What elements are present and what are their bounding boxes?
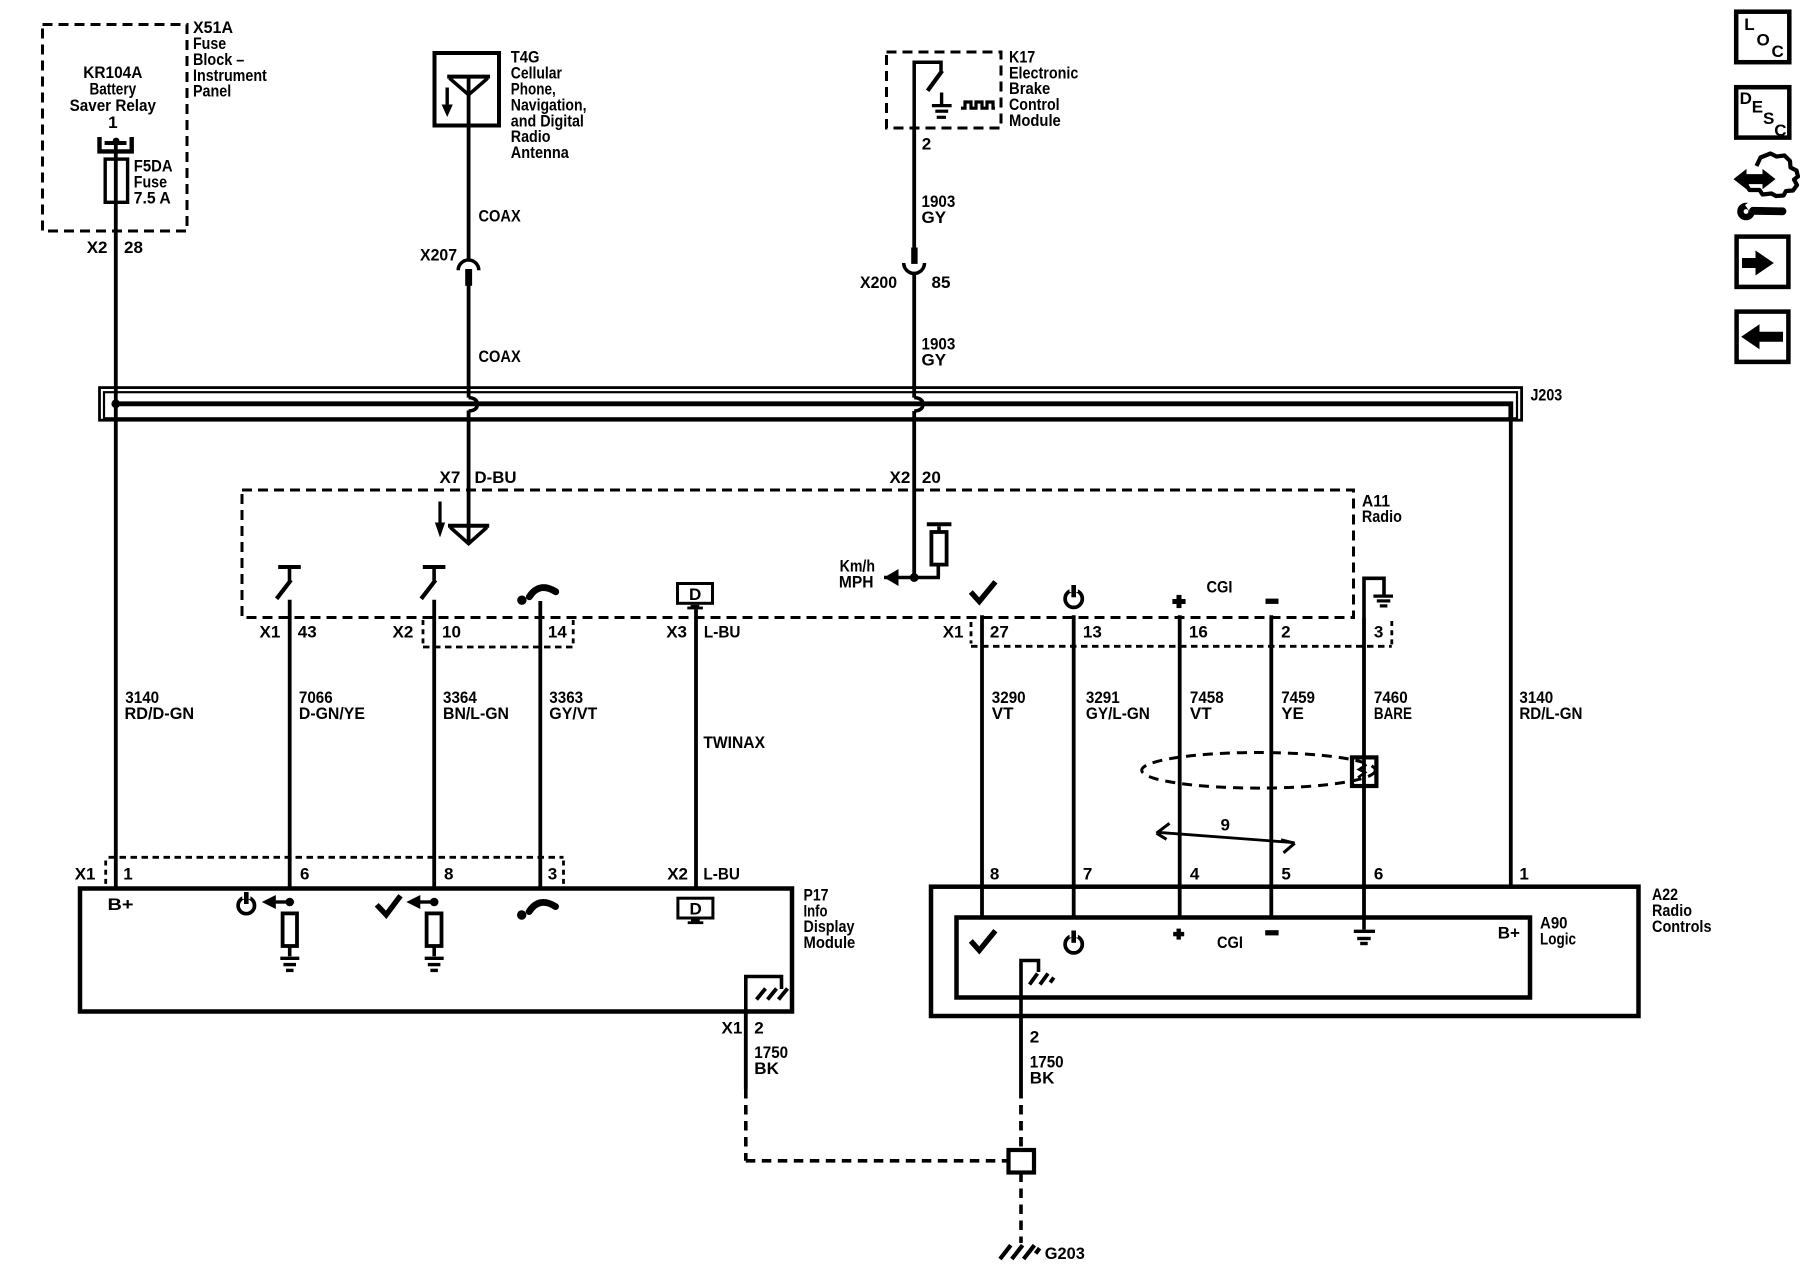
wire 3291 GY/L-GN — [1072, 615, 1076, 917]
module A90 Logic box — [957, 918, 1531, 998]
svg-text:Logic: Logic — [1540, 929, 1576, 948]
svg-text:COAX: COAX — [479, 207, 522, 226]
svg-text:D: D — [1740, 89, 1752, 108]
svg-text:C: C — [1774, 121, 1786, 140]
svg-text:43: 43 — [298, 623, 317, 642]
power icon in A90 — [1065, 931, 1082, 953]
wire 3140 RD/D-GN from fuse to P17 B+ — [114, 143, 118, 889]
pin labels A22 top row — [990, 865, 1529, 884]
wire 3363 GY/VT — [538, 601, 542, 889]
label 1903 GY lower — [922, 335, 956, 370]
svg-text:L-BU: L-BU — [703, 864, 740, 883]
arrow to power icon P17 — [262, 895, 290, 909]
module A22 Radio Controls box — [931, 887, 1639, 1016]
svg-text:16: 16 — [1189, 623, 1208, 642]
icon swap-wrench — [1734, 154, 1799, 218]
ground symbol in K17 — [932, 93, 952, 118]
svg-text:Controls: Controls — [1652, 917, 1712, 936]
pin labels P17 top row — [75, 864, 740, 883]
svg-text:6: 6 — [300, 864, 309, 883]
wire TWINAX L-BU — [694, 609, 698, 888]
label 7460 BARE — [1374, 688, 1412, 723]
svg-text:3: 3 — [1374, 623, 1383, 642]
svg-text:X207: X207 — [420, 245, 457, 264]
label A22 Radio Controls — [1652, 885, 1712, 936]
svg-text:RD/L-GN: RD/L-GN — [1519, 704, 1582, 723]
plus icon in A90 — [1173, 929, 1184, 940]
label 3291 GY/L-GN — [1086, 688, 1150, 723]
wire 7066 D-GN/YE — [288, 600, 292, 889]
svg-text:7.5 A: 7.5 A — [134, 189, 171, 208]
svg-text:1: 1 — [123, 864, 132, 883]
wire resistor to ground pin6 — [288, 946, 292, 956]
svg-text:7: 7 — [1083, 865, 1092, 884]
wire COAX antenna to X207 — [467, 77, 471, 260]
bus J203 — [100, 388, 1522, 422]
fuse F5DA — [105, 159, 127, 202]
svg-text:14: 14 — [548, 623, 567, 642]
svg-text:3: 3 — [548, 864, 557, 883]
icon DESC box — [1736, 87, 1789, 137]
svg-text:8: 8 — [444, 864, 453, 883]
resistor below pin 6 P17 — [283, 913, 297, 946]
svg-text:5: 5 — [1281, 865, 1290, 884]
svg-text:O: O — [1757, 31, 1770, 50]
svg-text:27: 27 — [990, 623, 1009, 642]
svg-text:GY: GY — [922, 351, 947, 370]
svg-text:20: 20 — [922, 468, 941, 487]
svg-text:GY/L-GN: GY/L-GN — [1086, 704, 1150, 723]
minus icon in A11 — [1266, 599, 1279, 604]
svg-text:Module: Module — [1009, 111, 1061, 130]
module A11 Radio dashed box — [242, 490, 1354, 618]
svg-text:1: 1 — [108, 113, 117, 132]
svg-text:J203: J203 — [1531, 386, 1563, 405]
svg-text:RD/D-GN: RD/D-GN — [125, 704, 195, 723]
pin labels A11 bottom row — [260, 623, 1384, 642]
svg-text:X1: X1 — [260, 623, 281, 642]
label 3364 BN/L-GN — [443, 688, 509, 723]
svg-text:10: 10 — [442, 623, 461, 642]
label 7459 YE — [1281, 688, 1315, 723]
svg-text:B+: B+ — [108, 895, 134, 914]
wire hop 1903 over bus — [914, 398, 923, 411]
minus icon in A90 — [1265, 930, 1278, 935]
wire 1750 BK from A90 — [1019, 1014, 1023, 1150]
label 7066 D-GN/YE — [299, 688, 365, 723]
label 3363 GY/VT — [549, 688, 598, 723]
svg-text:VT: VT — [1190, 704, 1212, 723]
svg-text:X1: X1 — [75, 864, 96, 883]
label F5DA Fuse 7.5 A — [134, 157, 173, 208]
label X51A Fuse Block - Instrument Panel — [193, 18, 267, 101]
wire COAX below bus to radio antenna input — [467, 410, 471, 544]
svg-text:MPH: MPH — [839, 572, 874, 591]
switch 1 in A11 — [277, 567, 301, 599]
svg-text:GY: GY — [922, 208, 947, 227]
svg-text:X2: X2 — [890, 468, 911, 487]
connector X200 — [904, 248, 925, 274]
wire 1903 below bus to radio — [912, 411, 916, 578]
label K17 Electronic Brake Control Module — [1009, 47, 1078, 130]
switch in K17 — [914, 62, 942, 128]
junction dot 3140 on bus — [111, 399, 120, 408]
speed signal arrow Km/h MPH — [884, 569, 940, 586]
svg-text:Module: Module — [804, 933, 856, 952]
svg-text:CGI: CGI — [1217, 933, 1243, 952]
svg-text:X7: X7 — [440, 468, 461, 487]
wire 7459 YE — [1269, 615, 1273, 917]
icon forward-arrow box — [1737, 237, 1789, 287]
svg-text:85: 85 — [932, 273, 951, 292]
svg-text:GY/VT: GY/VT — [549, 704, 598, 723]
pin label X1 2 below P17 — [722, 1018, 764, 1037]
pin label X7 D-BU — [440, 468, 517, 487]
wire 1903 GY X200 to radio — [912, 273, 916, 398]
svg-text:E: E — [1752, 98, 1763, 117]
power icon in A11 — [1065, 585, 1082, 607]
svg-text:X2: X2 — [667, 864, 688, 883]
switch 2 in A11 — [421, 567, 445, 599]
pin label X2 28 — [87, 238, 143, 257]
wire hop COAX over bus — [469, 398, 478, 411]
wire 1750 BK from P17 — [746, 1012, 1008, 1161]
wire 7460 BARE — [1362, 618, 1366, 918]
icon back-arrow box — [1737, 312, 1789, 362]
svg-text:BN/L-GN: BN/L-GN — [443, 704, 509, 723]
twisted pair dashed ellipse — [1142, 753, 1376, 789]
label 1750 BK left — [754, 1043, 788, 1078]
antenna symbol in A11 — [448, 526, 489, 544]
icon LOC box — [1736, 12, 1789, 63]
label X200 85 — [860, 273, 950, 292]
svg-text:D-BU: D-BU — [475, 468, 517, 487]
display D icon in P17 — [678, 898, 713, 924]
svg-text:Panel: Panel — [193, 82, 231, 101]
svg-text:COAX: COAX — [479, 347, 522, 366]
label 3140 RD/L-GN — [1519, 688, 1582, 723]
ground symbol pin 8 P17 — [425, 958, 444, 970]
chassis ground hook in A90 — [1021, 961, 1054, 1017]
svg-text:9: 9 — [1221, 816, 1230, 835]
svg-text:4: 4 — [1190, 865, 1200, 884]
svg-text:D: D — [689, 585, 701, 604]
svg-text:2: 2 — [754, 1018, 763, 1037]
relay KR104A contact — [100, 137, 132, 151]
checkmark icon in A11 — [971, 582, 996, 602]
svg-text:D: D — [689, 900, 701, 919]
svg-text:C: C — [1772, 42, 1784, 61]
label Km/h MPH — [839, 556, 875, 591]
svg-text:1: 1 — [1519, 865, 1528, 884]
label 3140 RD/D-GN — [125, 688, 195, 723]
svg-text:X1: X1 — [722, 1018, 743, 1037]
label 3290 VT — [992, 688, 1026, 723]
wire splice to G203 — [1019, 1173, 1023, 1244]
svg-text:Radio: Radio — [1362, 507, 1402, 526]
connector X207 — [458, 260, 479, 286]
svg-text:28: 28 — [124, 238, 143, 257]
svg-text:X2: X2 — [393, 623, 414, 642]
svg-text:2: 2 — [922, 135, 931, 154]
antenna symbol — [447, 77, 490, 95]
connector X1 dashed ticks in A11 — [971, 621, 1392, 646]
plus icon in A11 — [1172, 595, 1185, 608]
junction dot pin 6 P17 — [285, 898, 294, 907]
label 1903 GY upper — [922, 192, 956, 227]
svg-text:VT: VT — [992, 704, 1014, 723]
arrow into antenna — [435, 502, 445, 538]
wire resistor to ground pin8 — [432, 946, 436, 956]
label 7458 VT — [1190, 688, 1224, 723]
wire 7458 VT — [1178, 615, 1182, 917]
svg-text:CGI: CGI — [1207, 577, 1233, 596]
svg-text:13: 13 — [1083, 623, 1102, 642]
svg-text:S: S — [1763, 109, 1774, 128]
ground symbol pin 6 P17 — [280, 958, 299, 970]
svg-text:6: 6 — [1374, 865, 1383, 884]
svg-text:X200: X200 — [860, 273, 897, 292]
ground symbol in A11 — [1364, 578, 1393, 617]
svg-text:L: L — [1744, 15, 1754, 34]
wire 1903 GY K17 to X200 — [912, 128, 916, 249]
svg-text:BK: BK — [1030, 1068, 1055, 1087]
svg-text:BK: BK — [754, 1059, 779, 1078]
label T4G Cellular Phone Navigation and Digital Radio Antenna — [511, 48, 587, 162]
ground symbol in A90 — [1354, 920, 1375, 944]
svg-text:X1: X1 — [943, 623, 964, 642]
connector X1 dashed ticks at P17 — [106, 857, 564, 884]
checkmark icon in P17 — [377, 896, 401, 915]
coil squiggle in K17 — [961, 102, 995, 108]
svg-text:G203: G203 — [1045, 1244, 1085, 1263]
label KR104A Battery Saver Relay — [70, 63, 157, 132]
shield connector square on 7460 — [1352, 757, 1376, 786]
checkmark icon in A90 — [971, 931, 996, 951]
display D icon in A11 — [678, 584, 713, 610]
svg-text:2: 2 — [1030, 1027, 1039, 1046]
svg-text:2: 2 — [1281, 623, 1290, 642]
ground G203 — [1000, 1245, 1040, 1259]
wire COAX X207 to radio — [467, 285, 471, 398]
label A11 Radio — [1362, 491, 1402, 526]
svg-text:Antenna: Antenna — [511, 143, 569, 162]
wire 3140 RD/L-GN bus to A22 pin 1 — [1509, 419, 1513, 887]
svg-text:YE: YE — [1281, 704, 1304, 723]
junction dot pin 8 P17 — [430, 898, 439, 907]
junction dot 1903 at speed arrow — [910, 573, 919, 582]
module P17 Info Display Module box — [80, 889, 792, 1012]
label A90 Logic — [1540, 914, 1576, 949]
arrow to checkmark P17 — [406, 895, 434, 909]
speedometer resistor in A11 — [927, 524, 952, 577]
svg-text:L-BU: L-BU — [704, 623, 741, 642]
connector X2 dashed ticks in A11 — [423, 620, 573, 647]
label 1750 BK right — [1030, 1053, 1064, 1088]
module K17 dashed box — [887, 52, 1002, 128]
fuse block X51A dashed box — [43, 25, 188, 232]
pin label X2 20 — [890, 468, 941, 487]
antenna signal arrow — [442, 88, 453, 118]
phone icon in P17 — [517, 902, 556, 919]
svg-text:TWINAX: TWINAX — [703, 733, 765, 752]
phone icon in A11 — [517, 588, 556, 605]
callout 9 twisted pair arrow — [1157, 816, 1295, 853]
svg-text:8: 8 — [990, 865, 999, 884]
antenna T4G box — [435, 53, 500, 126]
splice S-box — [1009, 1150, 1035, 1173]
svg-text:X3: X3 — [666, 623, 687, 642]
chassis ground hook in P17 — [746, 977, 788, 1012]
wire 3364 BN/L-GN — [432, 600, 436, 889]
svg-text:D-GN/YE: D-GN/YE — [299, 704, 365, 723]
svg-text:BARE: BARE — [1374, 704, 1412, 723]
svg-text:B+: B+ — [1498, 924, 1520, 943]
power icon in P17 — [238, 892, 254, 914]
label P17 Info Display Module — [804, 885, 856, 952]
svg-text:X2: X2 — [87, 238, 108, 257]
resistor below pin 8 P17 — [427, 913, 442, 946]
wire 3290 VT — [980, 615, 984, 917]
